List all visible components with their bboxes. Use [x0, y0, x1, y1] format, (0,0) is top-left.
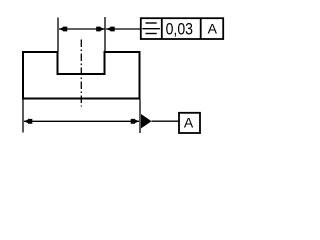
- svg-text:A: A: [208, 21, 218, 37]
- leader line to feature control frame: [106, 28, 141, 30]
- bottom dimension line: [24, 120, 139, 122]
- datum box A: [179, 113, 200, 133]
- symmetry symbol middle line: [142, 28, 160, 30]
- datum feature triangle A: [141, 114, 152, 128]
- arrowhead left (slot dimension): [59, 27, 68, 32]
- arrowhead right (bottom dimension): [131, 119, 140, 124]
- arrowhead of leader (points left at extension line): [106, 27, 115, 32]
- extension line left (slot): [57, 18, 59, 53]
- frame divider 1: [161, 18, 163, 39]
- frame divider 2: [200, 18, 202, 39]
- svg-text:0,03: 0,03: [166, 20, 193, 38]
- symmetry symbol top line: [146, 22, 157, 24]
- arrowhead right (slot dimension): [96, 27, 105, 32]
- feature control frame outer box: [141, 18, 223, 39]
- extension line bottom left: [22, 100, 24, 133]
- dimension line (slot width): [59, 28, 105, 30]
- arrowhead left (bottom dimension): [24, 119, 33, 124]
- extension line bottom right: [139, 100, 141, 134]
- centerline of slot: [80, 40, 82, 107]
- svg-text:A: A: [184, 115, 194, 131]
- extension line right (slot): [104, 17, 106, 52]
- symmetry symbol bottom line: [146, 33, 157, 35]
- part outline (T-block with slot): [23, 52, 140, 99]
- datum leader line: [152, 120, 180, 122]
